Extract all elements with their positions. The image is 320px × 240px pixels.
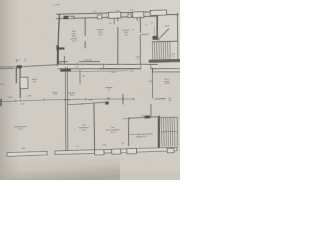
- band: [121, 149, 127, 153]
- left outer wall: [57, 14, 61, 66]
- bottom dims above wall: [21, 142, 133, 150]
- stair treads upper: [152, 41, 170, 59]
- big left room label: [14, 126, 27, 131]
- window W4: [133, 12, 144, 18]
- corridor lower partial line: [65, 70, 127, 73]
- svg-text:4.60: 4.60: [21, 148, 25, 150]
- room2 label: [97, 29, 105, 36]
- door ticks corridor: [141, 65, 151, 69]
- svg-text:1.40: 1.40: [129, 71, 133, 73]
- svg-text:1.40: 1.40: [8, 97, 12, 99]
- stair block lower band: [152, 68, 180, 73]
- partition room3/4: [139, 17, 142, 33]
- svg-text:0.9: 0.9: [136, 58, 139, 60]
- big box W2b: [108, 12, 120, 18]
- niche partition: [63, 56, 65, 64]
- svg-text:1.60: 1.60: [141, 115, 145, 117]
- svg-text:1.18: 1.18: [148, 81, 152, 83]
- small label near door: [32, 79, 38, 84]
- bottom wall band seg1: [7, 151, 47, 156]
- svg-text:2.6: 2.6: [59, 62, 62, 64]
- thick wall right: [158, 117, 160, 149]
- lower stair treads: [160, 116, 177, 118]
- mid room labels: [52, 87, 113, 97]
- right outer wall (top): [157, 16, 158, 38]
- svg-text:1.20: 1.20: [107, 98, 111, 100]
- door jamb tick mid corridor: [102, 65, 104, 69]
- partition room1/2: [84, 18, 87, 35]
- vestibule wall: [152, 68, 154, 99]
- big middle room label: [106, 127, 121, 134]
- window B2: [112, 149, 121, 154]
- svg-text:1: 1: [132, 142, 133, 144]
- left outer wall: [15, 66, 18, 83]
- band: [104, 149, 112, 153]
- stair hall label: [164, 78, 170, 85]
- wall corner blob: [153, 36, 158, 40]
- stairwell upper: top rail: [152, 40, 178, 43]
- svg-text:2.2: 2.2: [151, 23, 154, 25]
- stair hall small text: [168, 98, 172, 102]
- small wall bar: [59, 47, 65, 49]
- corridor bottom line: [58, 68, 100, 70]
- window W2: [97, 15, 101, 19]
- stair block top box B3: [150, 10, 166, 15]
- niche line room1 area: [58, 60, 68, 63]
- top outer wall: [56, 12, 157, 14]
- svg-text:8.60: 8.60: [111, 72, 115, 74]
- stair mid landing dark band: [149, 59, 181, 63]
- stair block top wall line: [167, 13, 179, 16]
- door rect: [20, 77, 28, 88]
- svg-text:2: 2: [65, 126, 66, 128]
- lower right room label: [130, 133, 153, 139]
- wall x25: [20, 67, 21, 98]
- svg-text:5.27: 5.27: [33, 81, 37, 83]
- room3 label: [122, 30, 130, 37]
- svg-text:4.90: 4.90: [28, 95, 32, 97]
- svg-text:1.5: 1.5: [132, 29, 135, 31]
- stairwell right edge: [176, 41, 179, 59]
- corridor interior light band: [58, 62, 159, 71]
- dark door bar: [60, 69, 71, 72]
- stair arrow: [158, 29, 170, 40]
- svg-text:кабинет 2.97: кабинет 2.97: [136, 136, 147, 138]
- bottom wall band seg2: [55, 150, 95, 155]
- stair block right wall: [177, 13, 178, 41]
- stair hall inner line: [154, 98, 165, 101]
- svg-text:2: 2: [74, 130, 75, 132]
- svg-text:2.97: 2.97: [21, 104, 25, 106]
- svg-text:12.3: 12.3: [70, 95, 74, 97]
- wall y117 right: [129, 117, 160, 119]
- svg-text:2.90: 2.90: [102, 145, 106, 147]
- B2 center post: [136, 18, 138, 21]
- dim texts along line: [8, 94, 111, 108]
- svg-text:2.0: 2.0: [109, 23, 112, 25]
- band right: [136, 147, 177, 152]
- corridor top line: [58, 62, 158, 67]
- svg-text:1.5: 1.5: [76, 146, 79, 148]
- svg-text:2.48: 2.48: [89, 99, 93, 101]
- window W1: [68, 16, 74, 19]
- window B1: [95, 150, 104, 155]
- vestibule lower wall: [150, 104, 153, 118]
- svg-text:16.25: 16.25: [165, 83, 170, 85]
- paper background: [0, 0, 180, 180]
- svg-text:2.08: 2.08: [116, 10, 120, 12]
- svg-text:12.3: 12.3: [82, 130, 86, 132]
- window B3: [127, 148, 137, 153]
- svg-text:6.2: 6.2: [169, 100, 172, 102]
- svg-text:10.1: 10.1: [53, 94, 57, 96]
- door jamb wall x80: [79, 70, 82, 85]
- svg-text:0.88: 0.88: [75, 66, 79, 68]
- window B4: [167, 148, 174, 153]
- room1 label: [71, 30, 78, 43]
- partition room2/3: [117, 17, 119, 21]
- svg-text:1.5: 1.5: [145, 24, 148, 26]
- wall pair x65: [64, 67, 68, 152]
- svg-text:4.2: 4.2: [122, 143, 125, 145]
- window W3: [128, 14, 131, 18]
- paper specks: [6, 6, 173, 168]
- svg-text:1.98: 1.98: [81, 75, 85, 77]
- wall x123 curved: [122, 94, 124, 104]
- left block top wall: [0, 66, 15, 69]
- room perevyaz label: [79, 123, 90, 131]
- dims above wall: [93, 10, 133, 14]
- svg-text:1 этаж: 1 этаж: [53, 4, 60, 6]
- svg-text:1.2: 1.2: [172, 56, 175, 58]
- wall x94: [93, 103, 95, 151]
- svg-text:2.97: 2.97: [93, 11, 97, 13]
- svg-text:1.40: 1.40: [130, 10, 134, 12]
- lower rooms top wall: [68, 102, 105, 105]
- corner door pier: [63, 16, 68, 20]
- long dimension line: [0, 98, 134, 102]
- left edge mark: [0, 99, 2, 107]
- svg-text:37: 37: [108, 90, 110, 92]
- witness tick: [76, 63, 78, 64]
